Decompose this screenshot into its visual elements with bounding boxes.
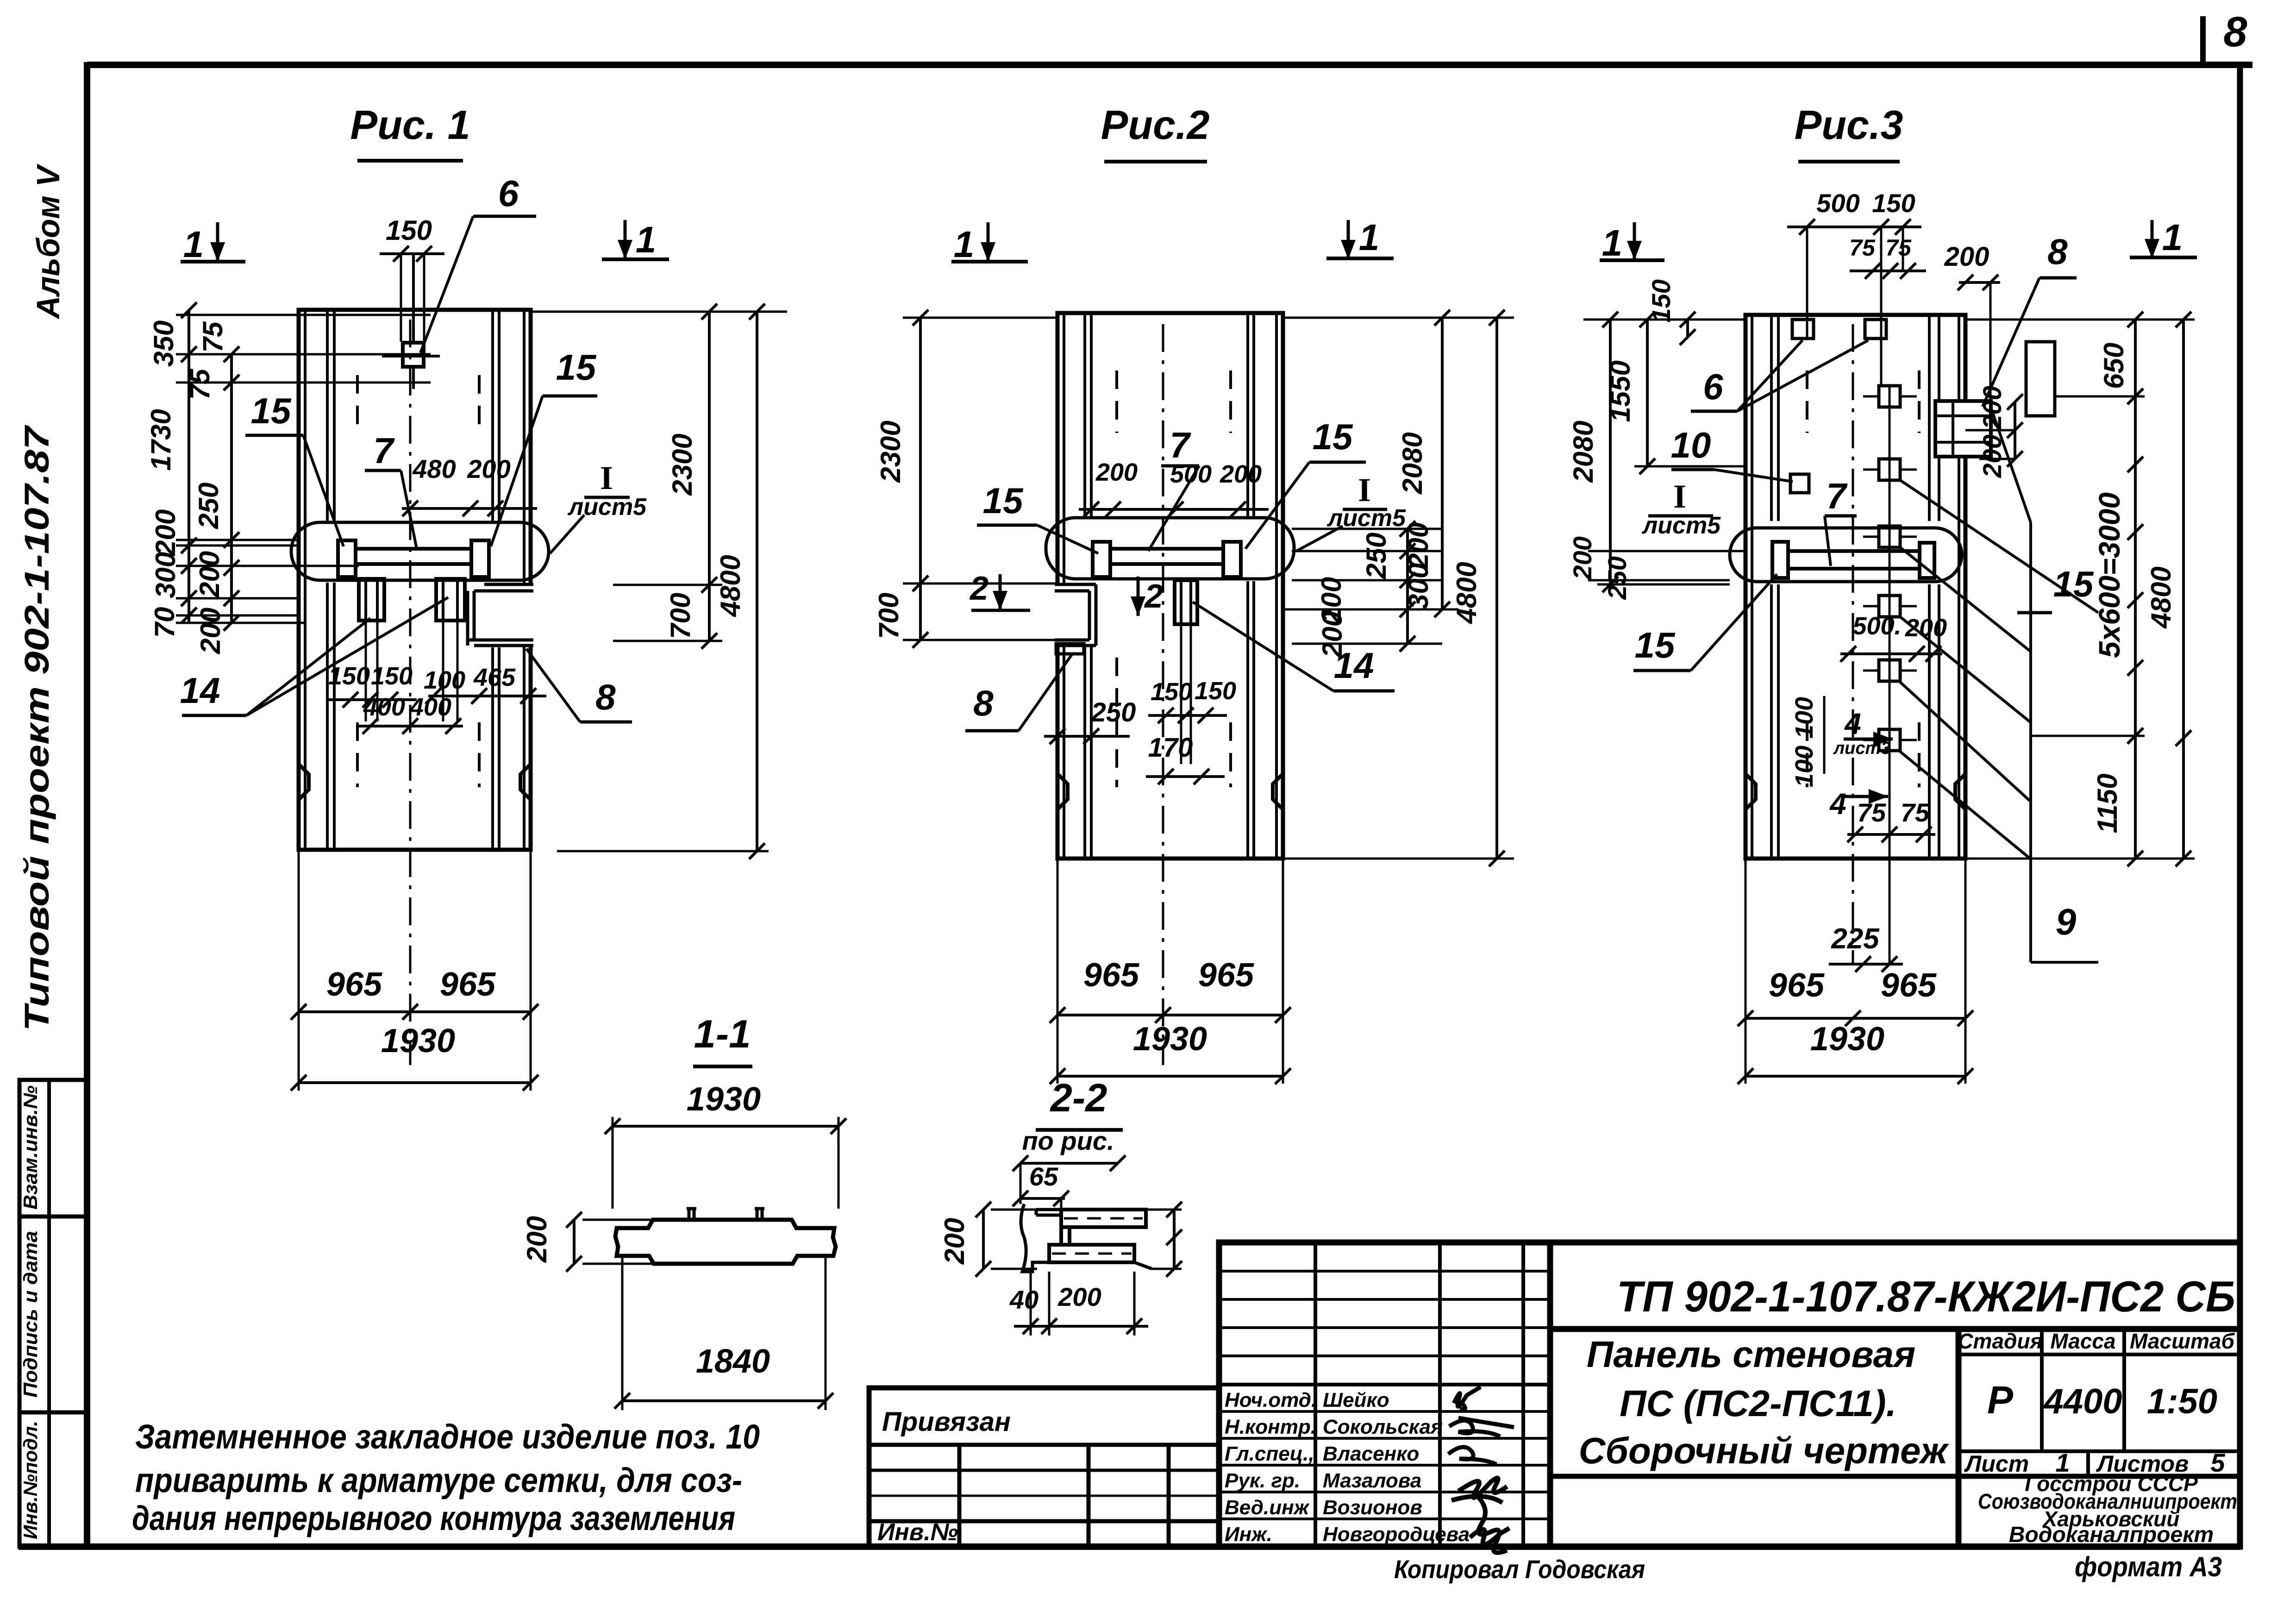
- svg-text:5х600=3000: 5х600=3000: [2093, 492, 2126, 658]
- fig2 left dimension chain: [903, 317, 1057, 319]
- svg-text:Сборочный чертеж: Сборочный чертеж: [1579, 1430, 1950, 1471]
- svg-text:1: 1: [1602, 222, 1623, 263]
- svg-text:250: 250: [1361, 533, 1392, 579]
- svg-text:2300: 2300: [875, 420, 906, 483]
- section mark 1 (right of fig3): [2151, 220, 2154, 258]
- fig1 lifting loop embed item 6: [403, 343, 424, 367]
- fig1 callout stadium (узел I): [291, 522, 549, 580]
- svg-text:650: 650: [2098, 343, 2129, 389]
- svg-text:15: 15: [251, 390, 292, 431]
- panel fig1 outline: [299, 310, 531, 850]
- svg-text:4400: 4400: [2043, 1382, 2122, 1421]
- svg-text:7: 7: [373, 430, 395, 471]
- panel fig3 outline: [1745, 315, 1965, 859]
- svg-text:Привязан: Привязан: [882, 1407, 1011, 1437]
- svg-text:500: 500: [1816, 188, 1859, 218]
- svg-text:Рис.3: Рис.3: [1795, 102, 1903, 148]
- title block signature table: [1314, 1242, 1317, 1547]
- svg-text:5: 5: [2210, 1448, 2225, 1477]
- svg-text:70: 70: [149, 607, 180, 638]
- svg-text:Инв.№: Инв.№: [877, 1519, 958, 1546]
- fig2 centerline: [1162, 324, 1164, 1065]
- title block outer: [1219, 1242, 2240, 1547]
- svg-text:75: 75: [1849, 235, 1876, 261]
- fig2 right bottom notch: [1273, 774, 1283, 809]
- fig1 rebar dashed lines: [356, 375, 359, 435]
- svg-text:8: 8: [2047, 231, 2068, 272]
- svg-text:14: 14: [180, 670, 220, 711]
- svg-text:Стадия: Стадия: [1958, 1329, 2042, 1353]
- svg-text:1840: 1840: [696, 1343, 770, 1380]
- svg-text:150: 150: [1195, 677, 1236, 705]
- fig3 top dimension chain: [1806, 227, 1808, 339]
- svg-text:1: 1: [954, 224, 975, 265]
- svg-text:4800: 4800: [2146, 566, 2177, 628]
- section 2-2 cross-section: [1061, 1210, 1146, 1227]
- svg-text:1: 1: [636, 219, 657, 260]
- fig2 left bottom notch: [1057, 774, 1068, 809]
- svg-text:Р: Р: [1987, 1378, 2014, 1422]
- svg-text:лист5: лист5: [567, 494, 647, 520]
- svg-text:6: 6: [1703, 366, 1723, 407]
- fig2 end plate item 15 (left): [1093, 542, 1110, 577]
- frame right border: [2237, 65, 2243, 1547]
- svg-text:1: 1: [183, 224, 204, 265]
- svg-text:200: 200: [1568, 536, 1597, 580]
- svg-text:4: 4: [1844, 707, 1861, 740]
- section 2-2 right dim line: [1173, 1210, 1176, 1269]
- svg-text:250: 250: [193, 483, 224, 529]
- svg-text:7: 7: [1170, 425, 1191, 465]
- svg-text:2: 2: [1144, 578, 1163, 615]
- svg-text:Мазалова: Мазалова: [1323, 1469, 1421, 1492]
- fig2 right dimension chain: [1283, 317, 1514, 319]
- fig2 tooth at left notch: [1056, 644, 1084, 654]
- svg-text:Масштаб: Масштаб: [2130, 1329, 2235, 1353]
- svg-text:40: 40: [1009, 1285, 1039, 1314]
- svg-text:Масса: Масса: [2050, 1329, 2115, 1353]
- svg-text:15: 15: [556, 347, 597, 388]
- svg-text:200: 200: [1977, 434, 2007, 478]
- svg-text:I: I: [1673, 478, 1686, 515]
- svg-text:1730: 1730: [145, 409, 176, 470]
- svg-text:965: 965: [1083, 957, 1139, 994]
- svg-text:200: 200: [1977, 386, 2007, 429]
- svg-text:Новгородцева: Новгородцева: [1323, 1523, 1470, 1546]
- svg-text:7: 7: [1826, 476, 1848, 516]
- svg-text:300: 300: [150, 552, 181, 598]
- fig2 section mark 2 (inner): [1137, 577, 1140, 616]
- svg-text:75: 75: [184, 368, 215, 400]
- frame top border: [87, 62, 2252, 68]
- svg-text:225: 225: [1831, 923, 1880, 955]
- svg-text:приварить к арматуре сетки, дл: приварить к арматуре сетки, для соз-: [135, 1461, 742, 1499]
- svg-text:65: 65: [1029, 1162, 1058, 1191]
- fig3 end plate item 15 (left): [1772, 542, 1788, 578]
- svg-text:Альбом V: Альбом V: [30, 163, 66, 320]
- svg-text:2080: 2080: [1568, 420, 1599, 483]
- svg-text:лист5: лист5: [1641, 512, 1721, 539]
- svg-text:965: 965: [326, 966, 382, 1003]
- svg-text:Взам.инв.№: Взам.инв.№: [19, 1085, 41, 1210]
- svg-text:4800: 4800: [1451, 562, 1482, 624]
- svg-text:15: 15: [1635, 625, 1676, 665]
- fig3 connection bar item 7: [1789, 549, 1920, 553]
- svg-text:250: 250: [1091, 697, 1136, 727]
- svg-text:350: 350: [148, 320, 179, 367]
- panel fig1 ribs: [326, 310, 329, 521]
- fig1 left bottom notch: [299, 764, 309, 800]
- svg-text:1930: 1930: [1810, 1021, 1884, 1058]
- svg-text:Возионов: Возионов: [1323, 1496, 1422, 1519]
- svg-text:200: 200: [1905, 614, 1947, 642]
- svg-text:200: 200: [194, 551, 225, 598]
- svg-text:I: I: [1358, 471, 1371, 508]
- fig2 end plate item 15 (right): [1223, 542, 1241, 577]
- svg-text:150: 150: [1151, 678, 1192, 706]
- svg-text:по рис.: по рис.: [1022, 1126, 1114, 1155]
- svg-text:150: 150: [386, 215, 432, 246]
- fig2 callout stadium (узел I): [1046, 518, 1294, 579]
- svg-text:14: 14: [1334, 645, 1374, 686]
- svg-text:200: 200: [1944, 242, 1989, 272]
- fig3 top embeds item 6: [1792, 320, 1814, 339]
- svg-text:лист3: лист3: [1833, 739, 1891, 758]
- section mark 1 (right of fig2): [1347, 220, 1350, 259]
- fig3 leader collector to item 9: [2029, 522, 2032, 962]
- fig1 joint notch (item 8 region): [463, 584, 533, 646]
- fig1 bottom dimensions: [298, 850, 300, 1091]
- svg-text:150: 150: [328, 662, 370, 690]
- svg-text:75: 75: [1885, 235, 1912, 261]
- fig3 callout stadium (узел I): [1730, 528, 1962, 582]
- fig3 protruding element item 8: [1935, 401, 1991, 457]
- Привязан table: [869, 1388, 1219, 1547]
- svg-text:Ноч.отд.: Ноч.отд.: [1225, 1389, 1317, 1411]
- svg-text:2300: 2300: [667, 433, 698, 495]
- page number tick: [2200, 16, 2206, 65]
- svg-text:9: 9: [2056, 901, 2077, 942]
- svg-text:1:50: 1:50: [2147, 1382, 2217, 1421]
- svg-text:150: 150: [1872, 188, 1915, 218]
- svg-text:465: 465: [473, 664, 516, 691]
- fig1 dim 150 (top): [400, 254, 402, 342]
- fig3 left bottom notch: [1745, 774, 1756, 809]
- svg-text:4800: 4800: [715, 555, 746, 617]
- frame bottom border: [19, 1543, 2240, 1550]
- svg-text:8: 8: [2223, 8, 2247, 56]
- svg-text:400: 400: [409, 693, 451, 721]
- svg-text:1: 1: [2162, 217, 2183, 258]
- svg-text:200: 200: [1057, 1282, 1101, 1311]
- svg-text:150: 150: [371, 662, 413, 690]
- svg-text:2-2: 2-2: [1050, 1076, 1107, 1120]
- svg-text:Лист: Лист: [1964, 1451, 2029, 1477]
- svg-text:Инж.: Инж.: [1225, 1523, 1272, 1546]
- panel fig2 outline: [1057, 313, 1283, 859]
- svg-text:300: 300: [1403, 563, 1434, 609]
- svg-text:4: 4: [1829, 787, 1846, 821]
- fig3 end plate item 15 (right): [1920, 543, 1934, 578]
- fig3 right bottom notch: [1955, 774, 1965, 809]
- fig3 rebar dashed lines: [1806, 370, 1808, 433]
- svg-text:1-1: 1-1: [694, 1012, 751, 1056]
- svg-text:Типовой проект 902-1-107.87: Типовой проект 902-1-107.87: [18, 424, 56, 1031]
- svg-text:15: 15: [1313, 416, 1353, 457]
- svg-text:I: I: [600, 459, 613, 496]
- svg-text:200: 200: [467, 454, 510, 483]
- svg-text:2: 2: [969, 570, 988, 607]
- fig2 joint notch left (item 8 region): [1055, 584, 1101, 646]
- svg-text:Рис. 1: Рис. 1: [350, 102, 470, 148]
- svg-text:Панель стеновая: Панель стеновая: [1587, 1334, 1915, 1375]
- svg-text:6: 6: [498, 173, 519, 214]
- fig3 left dimension chain: [1583, 319, 1745, 321]
- svg-text:700: 700: [665, 593, 696, 639]
- fig2 connection bar item 7: [1110, 547, 1223, 551]
- fig1 embed item 14 (left): [359, 579, 384, 621]
- svg-text:200: 200: [939, 1218, 970, 1265]
- svg-text:400: 400: [363, 693, 405, 721]
- title block stage/mass/scale: [1956, 1329, 1962, 1547]
- fig3 bottom dimensions: [1745, 859, 1747, 1084]
- svg-text:Сокольская: Сокольская: [1323, 1416, 1443, 1438]
- fig1 left dimension chain: [176, 314, 431, 316]
- svg-text:700: 700: [873, 593, 904, 639]
- svg-text:100: 100: [1790, 746, 1818, 787]
- svg-text:10: 10: [1671, 425, 1711, 465]
- fig1 right bottom notch: [520, 764, 531, 800]
- svg-text:Шейко: Шейко: [1323, 1389, 1389, 1411]
- svg-text:200: 200: [521, 1216, 552, 1263]
- svg-text:8: 8: [973, 683, 994, 723]
- svg-text:200: 200: [1403, 522, 1434, 569]
- left margin table: [19, 1080, 87, 1547]
- svg-text:200: 200: [195, 608, 226, 654]
- fig1 connection bar item 7: [356, 547, 471, 551]
- svg-text:ПС (ПС2-ПС11).: ПС (ПС2-ПС11).: [1620, 1383, 1896, 1424]
- svg-text:Н.контр.: Н.контр.: [1225, 1416, 1316, 1438]
- panel fig3 ribs: [1770, 315, 1773, 521]
- svg-text:Вед.инж: Вед.инж: [1225, 1496, 1310, 1519]
- svg-text:965: 965: [440, 966, 496, 1003]
- svg-text:1930: 1930: [1133, 1021, 1207, 1058]
- fig3 centerline: [1852, 324, 1854, 966]
- fig2 embed item 14: [1175, 580, 1197, 624]
- svg-text:Рук. гр.: Рук. гр.: [1225, 1469, 1300, 1492]
- fig1 centerline: [409, 320, 412, 1065]
- svg-text:дания непрерывного контура заз: дания непрерывного контура заземления: [132, 1499, 735, 1537]
- svg-text:15: 15: [983, 480, 1024, 521]
- svg-text:965: 965: [1769, 967, 1825, 1004]
- svg-text:Власенко: Власенко: [1323, 1442, 1419, 1465]
- svg-text:100: 100: [424, 666, 465, 694]
- fig3 embed item 10: [1790, 474, 1809, 493]
- svg-text:1930: 1930: [687, 1081, 761, 1118]
- svg-text:Водоканалпроект: Водоканалпроект: [2009, 1523, 2214, 1547]
- svg-text:Инв.№подл.: Инв.№подл.: [19, 1421, 41, 1539]
- svg-text:200: 200: [1220, 460, 1262, 488]
- svg-text:1150: 1150: [2092, 773, 2123, 833]
- fig3 slot opening: [2026, 342, 2055, 416]
- section mark 1 (right of fig1): [624, 220, 627, 259]
- svg-text:200: 200: [1095, 458, 1138, 486]
- svg-text:480: 480: [412, 454, 456, 483]
- svg-text:15: 15: [2053, 564, 2094, 604]
- svg-text:100: 100: [1790, 697, 1818, 739]
- svg-text:Копировал Годовская: Копировал Годовская: [1394, 1555, 1645, 1584]
- svg-text:8: 8: [595, 677, 616, 717]
- svg-text:500.: 500.: [1852, 612, 1901, 640]
- svg-text:75: 75: [1857, 798, 1886, 827]
- fig1 end plate item 15 (left): [338, 540, 356, 577]
- title block code cell: [1550, 1326, 2240, 1332]
- frame left border: [84, 62, 90, 1547]
- svg-text:170: 170: [1148, 733, 1193, 763]
- panel fig2 ribs: [1083, 313, 1086, 518]
- svg-text:250: 250: [1602, 556, 1632, 600]
- fig1 embed item 14 (right): [436, 579, 465, 621]
- svg-text:75: 75: [197, 321, 228, 352]
- svg-text:ТП 902-1-107.87-КЖ2И-ПС2 СБ: ТП 902-1-107.87-КЖ2И-ПС2 СБ: [1617, 1272, 2235, 1321]
- svg-text:75: 75: [1901, 798, 1930, 827]
- svg-text:Гл.спец.,: Гл.спец.,: [1225, 1442, 1314, 1465]
- svg-text:965: 965: [1881, 967, 1937, 1004]
- svg-text:1: 1: [1359, 217, 1380, 258]
- fig1 right dimension chain: [531, 311, 787, 313]
- svg-text:формат А3: формат А3: [2075, 1551, 2222, 1582]
- fig2 bottom dimensions: [1057, 859, 1059, 1084]
- fig3 right dimension chain: [1965, 319, 2195, 321]
- svg-text:Рис.2: Рис.2: [1101, 102, 1210, 148]
- section 1-1 panel cross-section: [615, 1220, 836, 1264]
- svg-text:2080: 2080: [1397, 432, 1428, 494]
- fig2 rebar dashed lines: [1115, 370, 1118, 433]
- svg-text:Подпись и дата: Подпись и дата: [19, 1231, 41, 1398]
- fig1 end plate item 15 (right): [471, 540, 489, 577]
- svg-text:200: 200: [150, 509, 181, 556]
- svg-text:1930: 1930: [381, 1022, 455, 1060]
- fig3 column of embeds item 15/9: [1889, 386, 1891, 751]
- signatures squiggles: [1454, 1387, 1481, 1410]
- svg-text:965: 965: [1198, 957, 1254, 994]
- svg-text:Затемненное закладное изделие: Затемненное закладное изделие поз. 10: [135, 1417, 760, 1456]
